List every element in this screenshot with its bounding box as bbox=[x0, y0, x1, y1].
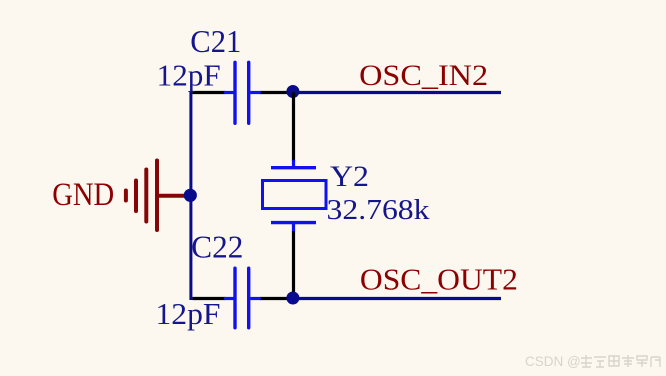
wire: crystal bottom black segment bbox=[292, 231, 295, 299]
svg-text:C22: C22 bbox=[191, 229, 243, 264]
junction node bottom (OSC_OUT2 net) bbox=[286, 292, 299, 305]
watermark CSDN bbox=[525, 354, 581, 369]
wire: left vertical bus bbox=[189, 91, 192, 300]
capacitor C21 plates bbox=[233, 62, 236, 123]
capacitor C21 pin stubs bbox=[224, 91, 234, 94]
svg-text:12pF: 12pF bbox=[157, 58, 221, 92]
junction node top (OSC_IN2 net) bbox=[286, 85, 299, 98]
svg-text:12pF: 12pF bbox=[156, 297, 221, 331]
svg-text:GND: GND bbox=[52, 176, 114, 212]
svg-text:OSC_OUT2: OSC_OUT2 bbox=[360, 262, 518, 296]
capacitor C22 pin stubs bbox=[224, 297, 234, 300]
wire: top net wire to OSC_IN2 bbox=[293, 91, 501, 94]
ground symbol GND bbox=[126, 161, 188, 231]
crystal Y2 top pin stub bbox=[292, 160, 295, 167]
crystal Y2 top plate bbox=[271, 166, 316, 169]
wire: bottom net wire to OSC_OUT2 bbox=[293, 297, 501, 300]
wire: bottom horizontal black segment (left of C22) bbox=[192, 297, 225, 300]
wire: crystal top black segment bbox=[292, 93, 295, 162]
svg-text:32.768k: 32.768k bbox=[327, 194, 431, 226]
svg-text:Y2: Y2 bbox=[330, 160, 369, 193]
wire: top horizontal black segment (right of C21 to junction) bbox=[260, 91, 290, 94]
crystal Y2 bottom plate bbox=[271, 221, 316, 224]
wire: bottom horizontal black segment (right of C22 to junction) bbox=[260, 297, 290, 300]
svg-text:OSC_IN2: OSC_IN2 bbox=[359, 60, 488, 92]
crystal Y2 body rectangle bbox=[263, 181, 327, 209]
svg-text:C21: C21 bbox=[190, 24, 241, 59]
capacitor C22 plates bbox=[233, 268, 236, 328]
svg-text:CSDN @: CSDN @ bbox=[525, 354, 581, 369]
wire: top horizontal black segment (left of C21) bbox=[192, 91, 225, 94]
watermark CJK glyph approximations bbox=[581, 355, 660, 367]
crystal Y2 bottom pin stub bbox=[292, 224, 295, 232]
junction node at GND tap bbox=[184, 189, 197, 202]
